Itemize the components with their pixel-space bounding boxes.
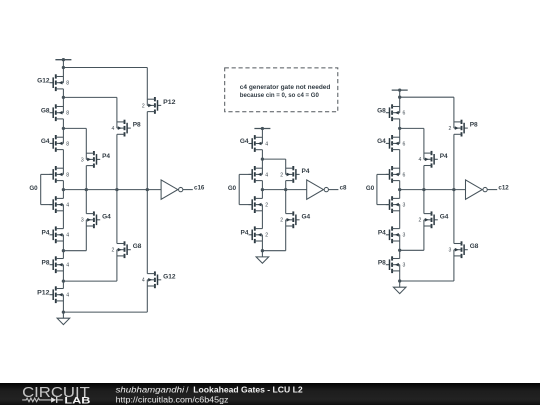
wire output node c8 [262,189,306,191]
svg-text:G0: G0 [228,185,237,192]
wire P4 drain feed c8 [285,159,287,174]
transistor P4 NMOS c8 pull-down [249,226,263,243]
transistor P4 PMOS bypass c16 [86,151,100,168]
ground column 2 [256,257,269,263]
wire G0 gate bus column 3 [377,174,390,204]
transistor G4 NMOS bypass c8 [286,211,300,228]
wire G12 bypass to ground rail [146,280,148,312]
wire output to G8 bypass [116,190,118,244]
transistor P4 NMOS c16 pull-down [50,226,64,243]
wire P12 NMOS to ground rail [62,295,64,312]
svg-text:G8: G8 [133,243,142,250]
svg-text:3: 3 [403,233,406,239]
junction [422,188,425,191]
wire output to G4 bypass c8 [285,190,287,214]
svg-text:P4: P4 [440,153,448,160]
wire ground stem column 3 [399,281,401,287]
svg-text:G4: G4 [440,213,449,220]
wire output to G12 bypass [146,190,148,274]
transistor G0 NMOS c16 pull-down [50,196,64,213]
transistor P4 PMOS bypass c12 [424,151,438,168]
wire P4 bypass to output [85,166,87,190]
wire G0 PMOS to output c8 [261,181,263,199]
svg-text:2: 2 [448,126,451,132]
svg-text:G8: G8 [470,243,479,250]
node n6 column 1 [62,279,65,282]
transistor G0 PMOS c8 pull-up [249,166,263,183]
annotation note text [240,84,331,99]
wire VDD stem to G12 [62,60,64,83]
svg-text:2: 2 [142,103,145,109]
svg-text:P12: P12 [37,289,50,296]
junction [115,188,118,191]
wire ground rail column 2 [262,250,285,252]
wire output to G4 bypass [85,190,87,214]
inverter driving c8 [307,180,339,199]
wire G8 to G4 [62,119,64,143]
wire G4 to G0 PMOS [62,150,64,175]
svg-text:P12: P12 [163,99,176,106]
svg-text:P4: P4 [42,230,50,237]
wire VDD stem to G4 [261,129,263,144]
wire G8 bypass return [63,280,117,282]
node n2 column 3 [398,127,401,130]
svg-text:c16: c16 [194,184,205,191]
transistor P8 PMOS bypass c12 [454,120,468,137]
wire P8 bypass to output [116,134,118,189]
svg-text:3: 3 [403,263,406,269]
svg-text:G12: G12 [163,273,176,280]
wire G0 NMOS to P4 NMOS [62,205,64,229]
svg-text:P8: P8 [378,259,386,266]
wire VDD tap to P12 branch [63,67,147,69]
wire output node c16 [63,189,161,191]
transistor G4 PMOS c8 pull-up [249,135,263,152]
transistor P8 NMOS c12 pull-down [386,256,400,273]
annotation dashed note box [225,68,338,112]
svg-text:P8: P8 [133,122,141,129]
CircuitLab logo diode symbol [51,397,63,403]
wire G0 gate bus column 2 [239,174,253,204]
node n1 column 2 [261,157,264,160]
wire G12 to G8 [62,89,64,113]
svg-text:G4: G4 [41,138,50,145]
node ground column 2 [261,249,264,252]
node n2 column 1 [62,127,65,130]
wire G4 bypass to n5 c12 [423,220,425,251]
wire VDD stem to G8 [399,90,401,113]
wire n2 to P4 branch [63,127,86,129]
svg-text:4: 4 [66,233,69,239]
wire G4 to G0 PMOS c12 [399,150,401,175]
node output column 3 [398,188,401,191]
wire P4 bypass to output c8 [285,181,287,190]
wire P4 drain feed [85,128,87,159]
transistor G0 PMOS c16 pull-up [50,166,64,183]
transistor P12 NMOS c16 pull-down [50,286,64,303]
transistor P8 NMOS c16 pull-down [50,256,64,273]
svg-text:4: 4 [265,172,268,178]
power rail VDD column 1 [55,59,71,61]
footer author and title [116,385,304,394]
wire G0 NMOS to P4 NMOS c8 [261,205,263,229]
transistor G12 NMOS bypass c16 [147,271,161,288]
inverter driving c12 [466,180,498,199]
wire G0 gate bus column 1 [41,174,54,204]
svg-text:G4: G4 [302,213,311,220]
svg-text:P4: P4 [241,230,249,237]
svg-text:http://circuitlab.com/c6b45gz: http://circuitlab.com/c6b45gz [116,395,229,404]
svg-text:P4: P4 [102,153,110,160]
wire P8 drain feed [116,97,118,128]
svg-text:8: 8 [66,111,69,117]
svg-text:4: 4 [142,278,145,284]
node output column 2 [261,188,264,191]
wire G4 to G0 PMOS c8 [261,150,263,175]
svg-text:6: 6 [403,141,406,147]
wire output node c12 [400,189,466,191]
wire P12 bypass to output [146,112,148,190]
transistor G12 PMOS c16 pull-up [50,74,64,91]
transistor P8 PMOS bypass c16 [117,120,131,137]
wire G0 PMOS to output c12 [399,181,401,199]
svg-text:2: 2 [418,218,421,224]
transistor P4 NMOS c12 pull-down [386,226,400,243]
junction [146,188,149,191]
svg-text:P8: P8 [42,259,50,266]
node ground column 3 [398,279,401,282]
footer bar [0,383,540,405]
wire G8 bypass to n6 [116,250,118,281]
junction [452,188,455,191]
wire ground rail column 1 [63,311,147,313]
wire G8 bypass to ground c12 [453,250,455,281]
transistor G0 NMOS c8 pull-down [249,196,263,213]
svg-text:2: 2 [265,233,268,239]
transistor G8 NMOS bypass c16 [117,241,131,258]
CircuitLab logo resistor symbol [22,398,51,402]
svg-text:because cin = 0, so c4 = G0: because cin = 0, so c4 = G0 [240,92,320,99]
svg-text:c12: c12 [498,184,509,191]
transistor G0 NMOS c12 pull-down [386,196,400,213]
node n1 column 1 [62,96,65,99]
svg-text:LAB: LAB [64,395,90,405]
transistor G8 PMOS c12 pull-up [386,104,400,121]
wire n2 to P4 branch c12 [400,127,424,129]
node n5 column 3 [398,249,401,252]
inverter driving c16 [161,180,193,199]
svg-text:2: 2 [280,218,283,224]
transistor G4 NMOS bypass c12 [424,211,438,228]
node VDD tap column 1 [62,66,65,69]
svg-text:G8: G8 [377,107,386,114]
transistor G8 PMOS c16 pull-up [50,104,64,121]
svg-text:G8: G8 [41,107,50,114]
transistor G4 NMOS bypass c16 [86,211,100,228]
svg-text:4: 4 [66,203,69,209]
junction [284,188,287,191]
node n5 column 1 [62,249,65,252]
node output column 1 [62,188,65,191]
svg-text:Lookahead Gates - LCU L2: Lookahead Gates - LCU L2 [193,385,303,394]
wire P4 NMOS to P8 NMOS [62,235,64,259]
wire P8 bypass to output c12 [453,134,455,189]
wire P8 NMOS to ground c12 [399,265,401,281]
wire G0 NMOS to P4 NMOS c12 [399,205,401,229]
junction [85,188,88,191]
wire n1 to P8 branch [63,96,117,98]
svg-text:c8: c8 [340,184,347,191]
wire output to G4 bypass c12 [423,190,425,214]
svg-text:3: 3 [81,157,84,163]
svg-text:4: 4 [418,157,421,163]
ground column 1 [57,318,70,324]
node ground column 1 [62,310,65,313]
wire output to G8 bypass c12 [453,190,455,244]
wire ground stem column 2 [261,251,263,257]
svg-text:2: 2 [265,203,268,209]
wire ground rail column 3 [400,280,454,282]
power rail VDD column 3 [392,89,408,91]
svg-text:G0: G0 [29,185,38,192]
wire G8 to G4 c12 [399,119,401,143]
wire P4 NMOS to P8 NMOS c12 [399,235,401,259]
svg-text:3: 3 [448,248,451,254]
svg-text:P4: P4 [378,230,386,237]
svg-text:P4: P4 [302,168,310,175]
svg-text:2: 2 [280,172,283,178]
svg-text:4: 4 [66,263,69,269]
svg-text:4: 4 [265,141,268,147]
wire P4 drain feed c12 [423,128,425,159]
wire G4 bypass return c12 [400,249,424,251]
svg-text:G4: G4 [102,213,111,220]
transistor P4 PMOS bypass c8 [286,166,300,183]
wire n1 to P4 branch c8 [262,158,285,160]
wire ground stem column 1 [62,312,64,318]
svg-text:G4: G4 [377,138,386,145]
svg-text:6: 6 [403,111,406,117]
wire P8 drain feed c12 [453,97,455,128]
power rail VDD column 2 [254,128,270,130]
ground column 3 [393,287,406,293]
wire G4 bypass return [63,250,86,252]
svg-text:G4: G4 [240,138,249,145]
wire P4 NMOS to ground rail c8 [261,235,263,251]
svg-text:c4 generator gate not needed: c4 generator gate not needed [240,84,331,91]
transistor G4 PMOS c12 pull-up [386,135,400,152]
wire P4 bypass to output c12 [423,166,425,190]
node VDD tap column 3 [398,96,401,99]
svg-text:2: 2 [111,248,114,254]
svg-text:8: 8 [66,172,69,178]
svg-text:shubhamgandhi: shubhamgandhi [116,385,185,394]
wire G4 bypass to n5 [85,220,87,251]
svg-text:3: 3 [403,203,406,209]
svg-text:8: 8 [66,81,69,87]
wire G0 PMOS to output node [62,181,64,199]
svg-text:4: 4 [111,126,114,132]
transistor G8 NMOS bypass c12 [454,241,468,258]
transistor P12 PMOS bypass c16 [147,97,161,114]
svg-text:3: 3 [81,218,84,224]
transistor G0 PMOS c12 pull-up [386,166,400,183]
wire VDD tap to P8 branch [400,96,454,98]
svg-text:G0: G0 [366,185,375,192]
svg-text:6: 6 [403,172,406,178]
svg-text:4: 4 [66,293,69,299]
wire P12 drain feed [146,68,148,106]
svg-text:8: 8 [66,141,69,147]
transistor G4 PMOS c16 pull-up [50,135,64,152]
svg-text:G12: G12 [37,77,50,84]
svg-text:P8: P8 [470,122,478,129]
wire P8 NMOS to P12 NMOS [62,265,64,289]
wire G4 bypass to ground c8 [285,220,287,251]
